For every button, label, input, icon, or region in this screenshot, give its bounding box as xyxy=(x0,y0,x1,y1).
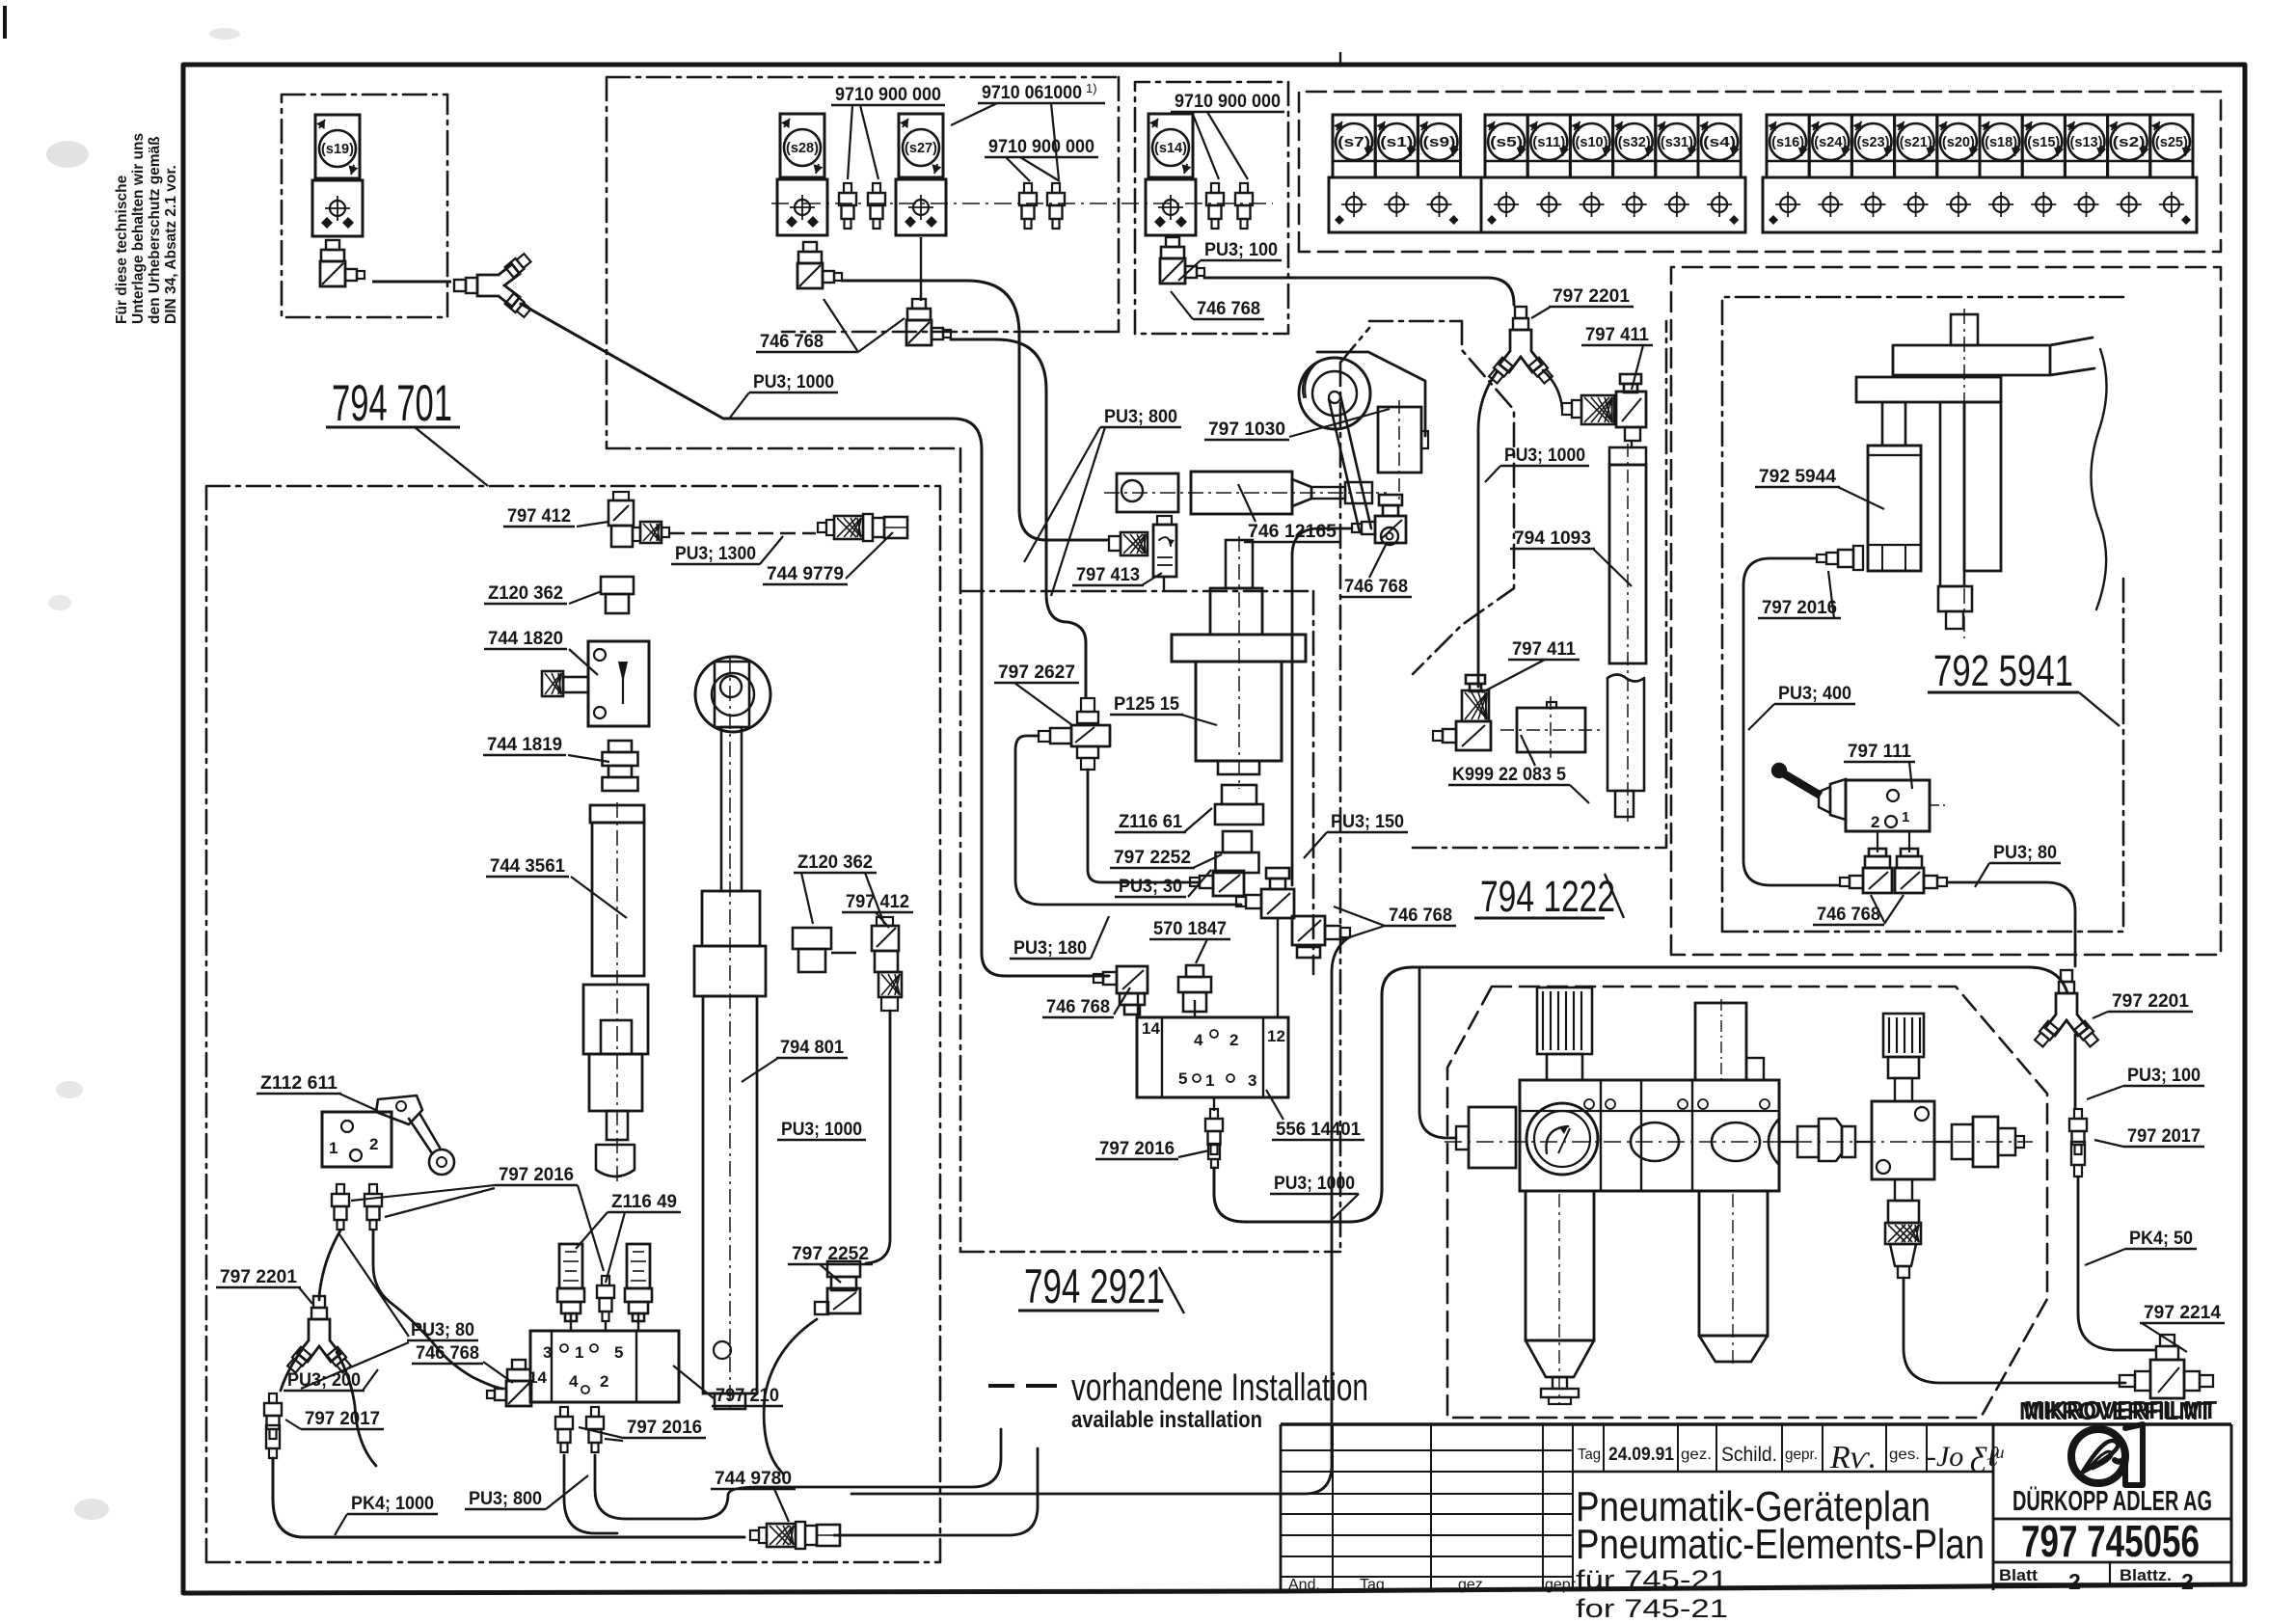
label 797 411 (a) xyxy=(1581,325,1653,390)
label 746 768 under s14 xyxy=(1171,291,1264,319)
label 746 12165 xyxy=(1238,484,1340,542)
label 797 2201 (service) xyxy=(2093,991,2193,1018)
label 556 14401 xyxy=(1266,1090,1364,1140)
valve s19 xyxy=(312,115,363,236)
svg-text:797 2016: 797 2016 xyxy=(1762,598,1837,618)
union fitting after unit xyxy=(1779,1119,1872,1161)
label 797 2017 (bottom-left) xyxy=(285,1409,384,1429)
fitting 797 2017 (service) xyxy=(2069,1109,2087,1177)
center line service unit xyxy=(1445,1141,2033,1143)
cylinder 794 1093 xyxy=(1607,441,1646,822)
svg-text:PK4; 50: PK4; 50 xyxy=(2129,1229,2193,1249)
svg-text:792 5941: 792 5941 xyxy=(1933,646,2073,695)
label Z112 611 xyxy=(257,1073,378,1111)
svg-text:PU3; 400: PU3; 400 xyxy=(1778,684,1851,704)
label 797 2016 under 556 xyxy=(1095,1139,1209,1159)
center line through valve row xyxy=(771,203,1273,204)
svg-text:den Urheberschutz gemäß: den Urheberschutz gemäß xyxy=(147,136,163,324)
svg-text:797 745056: 797 745056 xyxy=(2021,1516,2200,1566)
wire PU3 80 right xyxy=(1947,882,2075,966)
svg-text:746 768: 746 768 xyxy=(1344,577,1408,597)
label 744 3561 xyxy=(486,856,627,918)
label PU3; 180 xyxy=(1010,916,1109,959)
revision table left xyxy=(1281,1424,1580,1593)
toggle valve 797 111 xyxy=(1772,764,1946,831)
hex bolt Z120 362 xyxy=(601,577,634,613)
svg-text:797 412: 797 412 xyxy=(846,892,909,912)
right rod 792 5944 xyxy=(1938,402,2001,629)
elbow fitting 746 768 mid xyxy=(906,299,951,345)
svg-text:746 768: 746 768 xyxy=(1389,906,1452,926)
svg-text:Z112 611: Z112 611 xyxy=(260,1073,338,1094)
pressure switch 744 1820 xyxy=(542,641,649,726)
label 9710 061000 xyxy=(951,83,1105,179)
cylinder mechanism 792 5944 top stem xyxy=(1951,314,1978,345)
svg-text:9710 900 000: 9710 900 000 xyxy=(1175,92,1281,112)
nut Z116 61 xyxy=(1215,785,1263,825)
svg-text:1: 1 xyxy=(1205,1071,1214,1090)
big label 794 2921 xyxy=(1018,1259,1184,1313)
sheet row xyxy=(1999,1566,2194,1594)
roller lever valve Z112 611 xyxy=(322,1096,454,1175)
label 797 2016 (right) xyxy=(1758,571,1841,618)
group box s14 (dash-dot) xyxy=(1135,82,1288,334)
fitting 744 9779 xyxy=(818,514,907,541)
svg-text:PU3; 1000: PU3; 1000 xyxy=(781,1120,862,1140)
fitting below manifold port 4 xyxy=(555,1407,573,1452)
svg-text:Z120 362: Z120 362 xyxy=(488,583,563,604)
label 797 2016 (manifold) xyxy=(579,1418,706,1441)
svg-text:PU3; 800: PU3; 800 xyxy=(469,1489,542,1509)
machine break line xyxy=(2091,349,2106,609)
label 797 412 xyxy=(503,506,608,527)
label Z116 49 xyxy=(576,1192,681,1283)
svg-text:744 1819: 744 1819 xyxy=(487,735,562,755)
elbow fitting below s19 xyxy=(320,240,365,286)
throttle valve 797 413 xyxy=(1109,516,1176,577)
label 797 1030 xyxy=(1204,409,1390,440)
wire U-loop PU3 800 xyxy=(595,1429,1001,1519)
group box s19 (dash-dot) xyxy=(282,95,447,317)
label PU3; 1000 at 794 801 xyxy=(777,1120,866,1140)
svg-text:2: 2 xyxy=(1229,1031,1238,1049)
wire from 746 768 elbow to T 797 2627 xyxy=(951,339,1086,696)
svg-text:797 2627: 797 2627 xyxy=(998,663,1075,683)
fitting pair right of s27 xyxy=(1019,183,1065,229)
group box air service unit (dashed) xyxy=(1447,987,2047,1418)
wire right of 744 9780 xyxy=(834,1448,1038,1535)
svg-text:MIKROVERFILMT: MIKROVERFILMT xyxy=(2024,1395,2217,1424)
svg-text:2: 2 xyxy=(600,1372,608,1391)
top plate 792 5944 xyxy=(1893,338,2094,375)
wire Y to 797 2017 xyxy=(2074,1034,2077,1109)
fitting 797 2017 (bottom-left) xyxy=(264,1393,282,1458)
wire Y left branch down PU3 1000 xyxy=(1478,372,1497,687)
label PU3; 100 (service) xyxy=(2087,1066,2204,1099)
cylinder 792 5944 xyxy=(1868,446,1921,571)
label PK4; 50 xyxy=(2085,1229,2197,1265)
svg-text:3: 3 xyxy=(1248,1071,1256,1090)
label Z116 61 xyxy=(1115,808,1212,832)
label 797 2252 mid xyxy=(1110,848,1222,868)
svg-text:797 1030: 797 1030 xyxy=(1208,419,1285,440)
svg-text:746 768: 746 768 xyxy=(1817,905,1880,925)
label PU3; 100 xyxy=(1178,240,1282,281)
stub wires into 556 14401 xyxy=(1138,918,1278,1017)
elbow fitting 797 2252 (2) xyxy=(815,1261,860,1314)
label 797 2201 (1222) xyxy=(1531,286,1634,318)
svg-text:2: 2 xyxy=(2068,1569,2081,1594)
svg-text:-Jo Ƹℓͧ: -Jo Ƹℓͧ xyxy=(1927,1441,2005,1473)
wire Y right branch to 797 411 xyxy=(1543,370,1562,409)
svg-text:PU3; 100: PU3; 100 xyxy=(2127,1066,2201,1086)
svg-text:Z116 61: Z116 61 xyxy=(1119,812,1182,832)
label 797 412 (2) xyxy=(842,892,913,928)
wire PU3 800 long to elbow pair xyxy=(851,937,1349,1494)
wire from 797 2252 (2) to bottom xyxy=(764,1319,817,1474)
svg-text:797 411: 797 411 xyxy=(1585,325,1649,345)
superscript 1) of 9710 061000 xyxy=(1086,81,1097,95)
Y-fitting 797 2201 bottom-left xyxy=(286,1296,353,1373)
svg-text:gepr.: gepr. xyxy=(1545,1577,1580,1593)
svg-text:797 413: 797 413 xyxy=(1076,565,1140,585)
label 746 768 pair xyxy=(1334,906,1456,940)
label 744 9779 xyxy=(763,532,893,584)
svg-text:(s19): (s19) xyxy=(321,141,354,157)
group box 9710 061000 (dash-dot) xyxy=(607,77,1119,1252)
group box 794 1222 (dash-dot) xyxy=(1413,321,1666,848)
duerkopp adler logo xyxy=(2071,1424,2143,1485)
svg-text:gez.: gez. xyxy=(1458,1577,1487,1593)
elbow below 797 411 (b) xyxy=(1433,721,1491,750)
pulley 797 1030 xyxy=(1299,358,1370,429)
label 744 9780 xyxy=(711,1469,796,1522)
svg-text:for 745-21: for 745-21 xyxy=(1576,1594,1728,1623)
svg-text:794 1093: 794 1093 xyxy=(1514,528,1591,549)
group box 794 701 (dash-dot) xyxy=(206,486,940,1562)
wire from 797 412 (2) down to 797 2252 (2) xyxy=(866,1011,890,1263)
title text Pneumatik-Geraeteplan xyxy=(1576,1483,1931,1530)
svg-text:K999 22 083 5: K999 22 083 5 xyxy=(1452,765,1566,785)
svg-text:9710 900 000: 9710 900 000 xyxy=(988,137,1094,157)
label PU3; 200 xyxy=(284,1369,378,1391)
fitting 744 1819 xyxy=(603,741,638,791)
fitting stack above block xyxy=(1883,1014,1924,1101)
fitting stack below block xyxy=(1885,1179,1921,1278)
svg-text:Änd.: Änd. xyxy=(1288,1576,1320,1593)
big label 792 5941 xyxy=(1928,646,2120,726)
label PU3; 400 xyxy=(1748,684,1855,730)
label Z120 362 (2) xyxy=(794,852,884,924)
svg-text:PU3; 800: PU3; 800 xyxy=(1104,407,1177,427)
label 797 111 xyxy=(1844,742,1915,789)
logo cell lines xyxy=(1993,1519,2231,1584)
elbow 746 768 left of 570 1847 xyxy=(1094,966,1148,1014)
label 794 801 xyxy=(742,1038,848,1082)
scan artifacts left margin xyxy=(46,28,240,1520)
wires from Z116 fittings to manifold 797 210 xyxy=(571,1313,638,1331)
svg-text:794 1222: 794 1222 xyxy=(1480,872,1615,921)
valve manifold 556 14401 xyxy=(1137,1017,1288,1097)
label 797 2016 (Z112) xyxy=(351,1165,604,1271)
elbow 746 768 below clevis xyxy=(1352,495,1406,543)
legend dashes vorhandene Installation xyxy=(988,1384,1057,1388)
fitting pair right of s14 xyxy=(1206,183,1253,229)
svg-text:797 2252: 797 2252 xyxy=(1114,848,1191,868)
T-fitting 797 2627 xyxy=(1039,698,1110,770)
svg-text:Schild.: Schild. xyxy=(1721,1444,1777,1466)
svg-text:794 2921: 794 2921 xyxy=(1024,1259,1165,1313)
label 9710 900 000 (s28/s27) xyxy=(831,85,945,179)
label 746 768 (toggle) xyxy=(1813,895,1904,925)
label 9710 900 000 (s14) xyxy=(1171,92,1284,179)
nut 570 1847 xyxy=(1178,965,1211,1012)
label 792 5944 xyxy=(1755,467,1884,509)
wire from manifold port4 fitting xyxy=(564,1455,617,1533)
svg-text:PU3; 1000: PU3; 1000 xyxy=(753,372,834,392)
throttle fitting 797 412 (2) xyxy=(872,917,902,1011)
title block frame xyxy=(1281,1424,2231,1592)
wire PU3 180 from T left to elbow pair xyxy=(1015,736,1241,905)
wire from s28 elbow to 797 413 xyxy=(842,281,1107,540)
label PU3; 80 (bottom-left) xyxy=(301,1234,478,1389)
filter bowl xyxy=(1526,1191,1594,1404)
svg-text:2: 2 xyxy=(1871,813,1879,831)
service unit inlet block xyxy=(1443,1107,1516,1168)
svg-text:1: 1 xyxy=(1902,809,1909,825)
legend text available installation xyxy=(1071,1407,1262,1433)
valve bank s7 s1 s9 xyxy=(1329,115,1481,232)
hex bolt Z120 362 (2) xyxy=(793,928,856,972)
svg-text:PU3; 150: PU3; 150 xyxy=(1331,812,1404,832)
label 794 1093 xyxy=(1510,528,1632,586)
back-to-back elbows 746 768 pair xyxy=(1236,868,1350,958)
svg-text:797 412: 797 412 xyxy=(507,506,571,527)
fitting 797 2016 at 792 5944 xyxy=(1817,546,1863,570)
group box 794 2921 (dash-dot) xyxy=(960,321,1462,1252)
big label 794 701 xyxy=(326,375,488,486)
svg-text:792 5944: 792 5944 xyxy=(1759,467,1836,487)
title text Pneumatic-Elements-Plan xyxy=(1576,1521,1985,1568)
fitting 797 411 (b) knurl xyxy=(1462,675,1489,721)
svg-text:PU3; 1300: PU3; 1300 xyxy=(675,544,756,564)
label 570 1847 xyxy=(1149,919,1230,963)
svg-text:797 2201: 797 2201 xyxy=(1553,286,1630,307)
Y-fitting 797 2201 (service) xyxy=(2034,970,2100,1047)
signature ges xyxy=(1927,1441,2005,1473)
svg-text:797 111: 797 111 xyxy=(1848,742,1911,762)
wire PU3 1000 from Y to middle xyxy=(521,304,1109,976)
svg-text:Tag: Tag xyxy=(1578,1447,1601,1463)
label PU3; 150 xyxy=(1304,812,1408,858)
label PU3; 1000 (1222) xyxy=(1485,446,1589,482)
svg-text:5: 5 xyxy=(1178,1069,1187,1088)
svg-text:Z120 362: Z120 362 xyxy=(797,852,873,873)
fitting 797 2016 middle of Z116 pair xyxy=(597,1276,614,1321)
svg-text:PU3; 1000: PU3; 1000 xyxy=(1274,1174,1355,1194)
svg-text:797 2017: 797 2017 xyxy=(2127,1126,2201,1147)
bellows P125 15 xyxy=(1172,536,1306,789)
regulator knob xyxy=(1537,987,1592,1080)
svg-text:2: 2 xyxy=(2181,1569,2194,1594)
label 797 2252 (2) xyxy=(788,1244,873,1283)
label 9710 900 000 (mid) xyxy=(985,137,1098,181)
block K999 22 083 5 xyxy=(1500,696,1601,758)
svg-text:794 801: 794 801 xyxy=(780,1038,844,1058)
svg-text:1: 1 xyxy=(575,1343,583,1362)
label 797 2017 (service) xyxy=(2094,1126,2204,1147)
label 746 768 under s28 xyxy=(756,299,905,352)
label PK4; 1000 xyxy=(335,1494,438,1535)
flow control Z116 49 left xyxy=(557,1244,584,1321)
wire PU3 1300 xyxy=(669,532,816,535)
svg-text:3: 3 xyxy=(543,1343,552,1362)
title text for 745-21 xyxy=(1576,1594,1728,1623)
svg-text:DÜRKOPP ADLER AG: DÜRKOPP ADLER AG xyxy=(2012,1485,2212,1517)
svg-text:746 768: 746 768 xyxy=(1197,299,1260,319)
signature gepr xyxy=(1829,1440,1877,1475)
valve s27 xyxy=(896,114,946,235)
label Z120 362 xyxy=(484,583,602,604)
svg-text:gepr.: gepr. xyxy=(1785,1447,1818,1463)
svg-text:(s28): (s28) xyxy=(786,140,819,156)
svg-text:Blatt: Blatt xyxy=(1999,1566,2038,1584)
group box 792 5941 inner (dash-dot) xyxy=(1722,297,2123,932)
title text fuer 745-21 xyxy=(1576,1565,1728,1594)
wire PU3 400 xyxy=(1743,558,1838,885)
svg-text:PU3; 30: PU3; 30 xyxy=(1119,877,1182,897)
lubricator top stem xyxy=(1695,999,1764,1080)
label 797 413 xyxy=(1072,565,1162,585)
svg-text:746 768: 746 768 xyxy=(1046,997,1110,1017)
fitting 797 2252 xyxy=(1216,831,1259,873)
label PU3; 80 (right) xyxy=(1975,843,2061,887)
svg-text:794 701: 794 701 xyxy=(332,375,452,432)
svg-text:Tag: Tag xyxy=(1360,1577,1385,1593)
group box 792 5941 outer (dashed) xyxy=(1671,267,2221,955)
svg-text:Rѵ.: Rѵ. xyxy=(1829,1440,1877,1475)
center line 792 5944 xyxy=(1963,309,1965,638)
svg-text:9710 900 000: 9710 900 000 xyxy=(835,85,941,105)
wire Y right branch xyxy=(337,1352,376,1466)
second plate 792 5944 xyxy=(1856,377,2001,402)
svg-text:746 12165: 746 12165 xyxy=(1248,522,1337,542)
fitting 744 9780 xyxy=(750,1522,840,1549)
svg-text:14: 14 xyxy=(1142,1019,1160,1038)
fitting 797 2016 below 556 14401 xyxy=(1205,1097,1223,1168)
cylinder 746 12165 xyxy=(1104,472,1387,514)
svg-text:PU3; 180: PU3; 180 xyxy=(1013,938,1087,959)
wire PK4 1000 xyxy=(273,1458,744,1537)
label 797 411 (b) xyxy=(1482,639,1580,692)
svg-text:2: 2 xyxy=(369,1135,378,1153)
stub below 797 413 xyxy=(1163,577,1165,591)
elbows 746 768 under toggle xyxy=(1840,831,1947,893)
legend text vorhandene Installation xyxy=(1071,1366,1368,1409)
wire from elbow down to pair xyxy=(1292,528,1352,885)
svg-text:available installation: available installation xyxy=(1071,1407,1262,1433)
svg-text:570 1847: 570 1847 xyxy=(1153,919,1227,939)
air line drop to unit inlet xyxy=(1419,967,1456,1138)
distributor square block xyxy=(1872,1101,1934,1179)
elbow 746 768 at manifold xyxy=(487,1360,531,1406)
svg-text:797 2201: 797 2201 xyxy=(220,1267,297,1287)
label 744 1819 xyxy=(483,735,609,762)
fitting pair right of s28 xyxy=(839,183,885,229)
svg-text:vorhandene Installation: vorhandene Installation xyxy=(1071,1366,1368,1409)
wire from stack to T 797 2214 xyxy=(1904,1278,2125,1383)
margin copyright note xyxy=(114,133,179,324)
label 797 2214 xyxy=(2140,1303,2225,1352)
svg-text:1: 1 xyxy=(329,1139,338,1157)
svg-text:746 768: 746 768 xyxy=(760,332,824,352)
piston rod 792 5944 xyxy=(1882,402,1905,446)
wire PU3 30 from T bottom to elbow xyxy=(1088,770,1199,882)
svg-text:797 2214: 797 2214 xyxy=(2144,1303,2221,1323)
pulley of 794 801 xyxy=(695,657,770,732)
svg-text:797 411: 797 411 xyxy=(1512,639,1576,660)
fitting below manifold port 2 xyxy=(586,1407,604,1452)
svg-text:(s14): (s14) xyxy=(1154,140,1187,156)
elbow below 797 2252 xyxy=(1190,871,1244,896)
svg-text:4: 4 xyxy=(1194,1031,1203,1049)
svg-text:12: 12 xyxy=(1267,1027,1285,1045)
lubricator bowl xyxy=(1699,1191,1768,1365)
cylinder 794 801 xyxy=(694,658,766,1409)
label PU3; 30 xyxy=(1115,870,1211,897)
wire PU3 1000 from 556 manifold to supply line xyxy=(1214,967,2067,1222)
logo text DUERKOPP ADLER AG xyxy=(2012,1485,2212,1517)
svg-text:797 2016: 797 2016 xyxy=(1099,1139,1175,1159)
svg-text:PU3; 100: PU3; 100 xyxy=(1204,240,1278,260)
svg-text:P125 15: P125 15 xyxy=(1114,694,1179,715)
stamp MIKROVERFILMT xyxy=(2019,1395,2217,1425)
svg-text:DIN 34, Absatz 2.1 vor.: DIN 34, Absatz 2.1 vor. xyxy=(163,165,179,324)
Y-fitting 797 2201 (794 1222) xyxy=(1488,307,1554,384)
svg-text:556 14401: 556 14401 xyxy=(1276,1120,1361,1140)
label 746 768 left mid xyxy=(1042,987,1130,1017)
svg-text:5: 5 xyxy=(614,1343,623,1362)
wire PU3 100 from s14 elbow to 794 1222 Y xyxy=(1204,278,1514,305)
valve bank s5 s11 s10 s32 s31 s4 xyxy=(1481,115,1745,232)
svg-text:797 2201: 797 2201 xyxy=(2112,991,2189,1012)
svg-text:744 9779: 744 9779 xyxy=(767,564,844,584)
approval row xyxy=(1573,1424,1993,1472)
wire PK4 50 xyxy=(2078,1177,2155,1350)
wire Y left branch to 797 2017 xyxy=(281,1350,302,1391)
svg-text:Für diese technische: Für diese technische xyxy=(114,175,130,324)
wire s19 elbow to Y xyxy=(372,281,451,284)
svg-text:797 210: 797 210 xyxy=(716,1386,779,1406)
svg-text:für 745-21: für 745-21 xyxy=(1576,1565,1728,1594)
svg-text:PU3; 1000: PU3; 1000 xyxy=(1504,446,1585,466)
label PU3; 1000 diag xyxy=(730,372,838,418)
valve manifold 797 210 xyxy=(528,1331,679,1402)
label 746 768 (manifold) xyxy=(412,1343,513,1383)
svg-text:(s27): (s27) xyxy=(905,140,937,156)
svg-text:24.09.91: 24.09.91 xyxy=(1608,1445,1674,1465)
elbow fitting below s28 xyxy=(797,242,842,288)
label 744 1820 xyxy=(484,629,598,675)
svg-text:9710 061000: 9710 061000 xyxy=(982,83,1082,103)
valve s28 xyxy=(777,114,827,235)
stub s27 to elbow xyxy=(920,237,922,301)
fitting 797 411 with elbow xyxy=(1562,374,1646,441)
wire Z112 port2 down xyxy=(373,1231,502,1389)
label 797 2627 xyxy=(994,663,1079,725)
svg-text:PK4; 1000: PK4; 1000 xyxy=(351,1494,434,1514)
svg-text:744 3561: 744 3561 xyxy=(490,856,565,877)
